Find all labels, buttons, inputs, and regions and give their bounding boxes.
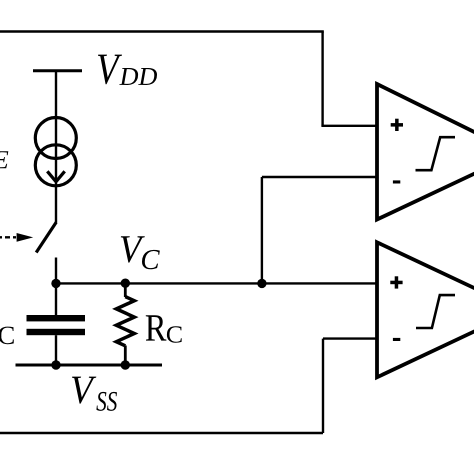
node junction dot capacitor bottom on VSS rail: [51, 360, 60, 369]
label RC: [146, 315, 182, 342]
U2 - pin symbol: [393, 338, 400, 341]
comparator U2 triangle: [377, 242, 474, 377]
node junction dot at resistor top on VC wire: [121, 279, 130, 288]
wire supply branch through current source: [55, 71, 57, 223]
switch control dashed arrow: [0, 233, 33, 242]
capacitor CC: [27, 315, 86, 335]
U1 - pin symbol: [393, 180, 400, 183]
wire U2 - input: [323, 337, 378, 339]
wire capacitor bottom to VSS rail: [55, 335, 57, 365]
U1 + pin symbol: [391, 119, 403, 131]
VSS ground rail: [16, 364, 163, 367]
resistor RC: [116, 283, 134, 365]
wire U1 - input: [262, 176, 378, 178]
U2 hysteresis symbol: [416, 295, 455, 328]
VDD supply bar: [33, 69, 82, 72]
U2 + pin symbol: [390, 276, 402, 288]
wire vertical drop to U1 + input: [321, 32, 323, 126]
comparator U1 triangle: [377, 84, 474, 220]
label VDD: [98, 55, 157, 85]
node junction dot resistor bottom on VSS rail: [121, 360, 130, 369]
label E (cut-off at left edge): [0, 151, 8, 168]
current source IE (two circles): [35, 118, 76, 186]
U1 hysteresis symbol: [416, 137, 456, 170]
wire vertical rise to U2 - input: [322, 339, 324, 433]
label VC: [121, 236, 160, 269]
switch S1 blade: [36, 222, 56, 252]
node junction dot at U1 feedback tap on VC wire: [257, 279, 266, 288]
wire bottom feedback rail: [0, 432, 323, 435]
node VC horizontal wire: [56, 282, 378, 284]
label VSS: [72, 377, 117, 411]
label C (cut-off CC at left edge): [0, 327, 14, 345]
wire U1 + input: [321, 125, 378, 127]
wire switch bottom stub down through VC node to capacitor: [55, 258, 57, 316]
node junction dot at switch/capacitor on VC wire: [51, 279, 60, 288]
wire vertical from U1 - input down to node VC: [261, 177, 263, 283]
wire top feedback rail: [0, 30, 324, 32]
